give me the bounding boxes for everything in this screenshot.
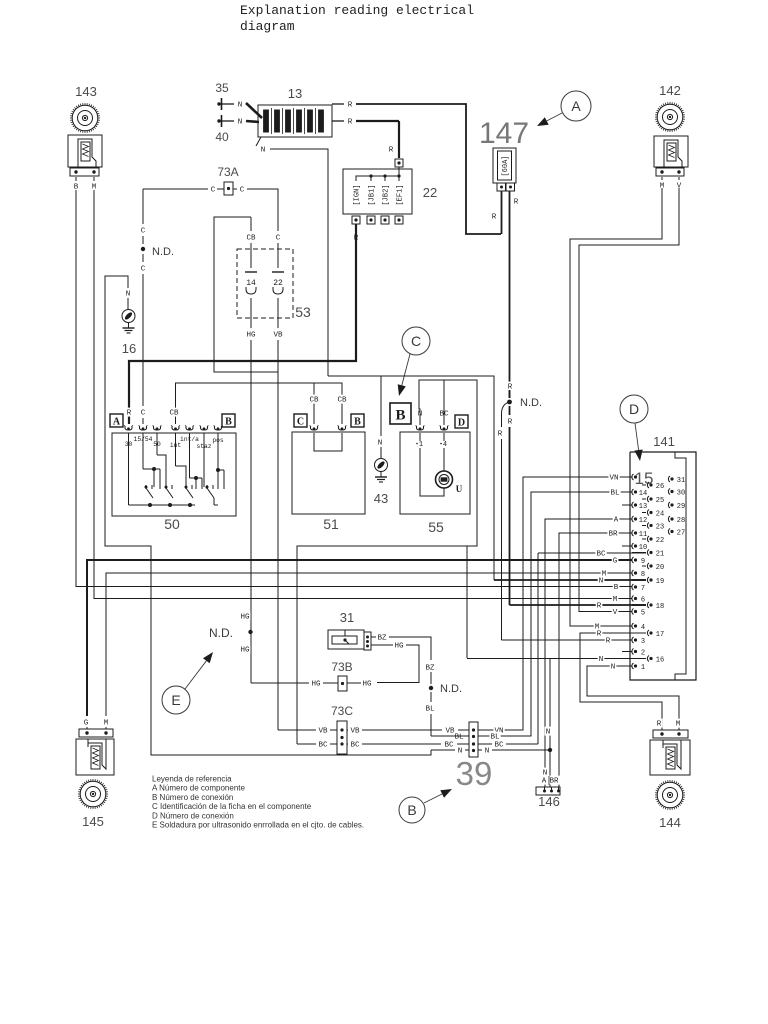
svg-text:[EF1]: [EF1]	[397, 184, 405, 205]
wire C label above pin 15/54	[140, 408, 147, 417]
141 wire label VN y477	[608, 473, 619, 482]
svg-text:N: N	[599, 578, 604, 586]
EF1 top pin	[395, 159, 403, 167]
svg-text:C: C	[276, 235, 281, 243]
svg-text:73C: 73C	[331, 704, 353, 718]
svg-text:10: 10	[639, 544, 647, 552]
wire R label top	[347, 100, 354, 109]
svg-text:CB: CB	[246, 235, 256, 243]
wire M from 145 to 141 pin 8	[106, 573, 632, 716]
junction on CB at 51 left pin	[313, 383, 315, 424]
svg-text:CB: CB	[337, 397, 347, 405]
141 pin 25	[647, 496, 649, 502]
stub pin10	[622, 545, 632, 547]
141 wire label G y560	[612, 556, 619, 565]
switch 50 pin 30	[125, 427, 132, 430]
svg-text:U: U	[456, 484, 463, 494]
wire BR 141 pin 11 to connector 146	[559, 533, 632, 787]
141 pin 5	[632, 609, 634, 615]
svg-text:C: C	[411, 333, 421, 349]
svg-text:31: 31	[340, 610, 354, 625]
terminal 40 connector symbol	[217, 119, 220, 122]
wire N label above junction	[545, 727, 552, 736]
svg-text:M: M	[613, 596, 618, 604]
wire N label below 13	[260, 145, 267, 154]
connector 22 body	[343, 169, 412, 214]
svg-text:N.D.: N.D.	[152, 246, 174, 258]
55 pin N	[416, 427, 423, 430]
svg-text:BC: BC	[494, 742, 504, 750]
svg-text:C Identificación de la ficha e: C Identificación de la ficha en el compo…	[152, 802, 312, 811]
141 pin 26	[647, 482, 649, 488]
svg-text:R: R	[508, 419, 513, 427]
balloon B arrow	[424, 794, 442, 803]
svg-text:V: V	[613, 609, 618, 617]
wire R label above pin 30	[126, 408, 133, 417]
svg-text:BL: BL	[454, 734, 464, 742]
svg-text:[JB1]: [JB1]	[369, 184, 377, 205]
svg-text:N: N	[261, 147, 266, 155]
wire BC from x297 into 73C and to 39	[297, 743, 316, 745]
svg-text:13: 13	[639, 503, 647, 511]
connector 73C body	[337, 721, 347, 754]
wire A 141 pin 12 to connector 146	[545, 519, 632, 787]
svg-text:146: 146	[538, 794, 560, 809]
relay 31 body	[328, 630, 364, 649]
svg-text:HG: HG	[311, 681, 321, 689]
wire N junction x550 down to 146	[549, 659, 551, 788]
141 wire label N y666	[610, 662, 617, 671]
connector 13 bar 1	[264, 110, 269, 132]
wire R label second	[347, 117, 354, 126]
svg-text:A: A	[571, 98, 581, 114]
wire M from 142 to pin 4	[570, 188, 662, 626]
svg-text:M: M	[676, 721, 681, 729]
switch 50 internal contacts	[128, 433, 130, 505]
svg-text:D: D	[458, 418, 465, 429]
svg-text:29: 29	[677, 503, 685, 511]
svg-text:BR: BR	[549, 778, 559, 786]
141 pin 14	[632, 489, 634, 495]
55 pin BC	[440, 427, 447, 430]
wire CB label above 53 pin14	[245, 233, 256, 242]
wire BC 55 pin up to y380	[443, 380, 445, 425]
svg-text:147: 147	[479, 117, 529, 150]
connector 39 strip	[469, 722, 478, 757]
svg-text:4: 4	[641, 624, 645, 632]
svg-text:35: 35	[215, 81, 229, 95]
connector strip of 145	[79, 729, 113, 737]
fuse 147 body	[493, 148, 516, 183]
connector 13 bar 3	[286, 110, 291, 132]
splice N.D. (R wires)	[507, 382, 514, 391]
wire N branch x467 down to pin16 run	[466, 546, 468, 658]
141 pin 16	[647, 656, 649, 662]
balloon C	[402, 327, 430, 355]
141 pin 3	[632, 637, 634, 643]
svg-text:8: 8	[641, 571, 645, 579]
switch 50 outer box	[112, 433, 236, 516]
svg-text:VN: VN	[609, 475, 618, 483]
connector 22 bottom pins	[352, 216, 360, 224]
wire R label below IGN	[353, 233, 360, 242]
svg-text:A: A	[113, 417, 121, 428]
speaker 142 tweeter symbol	[657, 104, 683, 130]
balloon A arrow	[547, 113, 562, 121]
141 wire label R y633	[596, 629, 603, 638]
39 wire stubs	[458, 729, 469, 731]
horn symbol U in 55	[436, 471, 453, 488]
141 wire label M y598.5	[612, 594, 619, 603]
connector 73A body	[224, 182, 233, 195]
wire C label left of 73A	[210, 185, 217, 194]
svg-text:B: B	[225, 417, 232, 428]
svg-text:G: G	[613, 558, 618, 566]
141 wire label M y626	[594, 622, 601, 631]
141 pin 12	[632, 516, 634, 522]
svg-text:HG: HG	[246, 332, 256, 340]
wire from 13 second R to EF1: right then down	[356, 120, 399, 122]
svg-text:N: N	[611, 664, 616, 672]
svg-text:B: B	[407, 802, 416, 818]
svg-text:145: 145	[82, 814, 104, 829]
svg-text:D Número de conexión: D Número de conexión	[152, 811, 234, 820]
svg-text:23: 23	[656, 523, 664, 531]
ground 43 symbol	[375, 459, 388, 472]
svg-text:R: R	[492, 214, 497, 222]
svg-text:M: M	[104, 720, 109, 728]
svg-text:25: 25	[656, 497, 664, 505]
wire N label on 146 wire	[542, 768, 549, 777]
boxed label B (switch 50)	[222, 414, 235, 427]
svg-text:[60A]: [60A]	[502, 155, 510, 176]
svg-text:VB: VB	[350, 728, 360, 736]
connector 13 bar 6	[319, 110, 324, 132]
svg-text:HG: HG	[240, 614, 250, 622]
svg-text:B: B	[395, 408, 405, 424]
144 pin labels R / M	[656, 719, 663, 728]
svg-text:12: 12	[639, 517, 647, 525]
39 wire labels right	[493, 726, 504, 735]
svg-text:BL: BL	[610, 490, 620, 498]
wire HG loop to 73B	[377, 645, 419, 683]
73C wire VB left label	[317, 726, 328, 735]
wire fuse left pin down to R feed	[501, 191, 503, 234]
connector 13 bar 2	[275, 110, 280, 132]
141 pin 24	[647, 510, 649, 516]
svg-text:24: 24	[656, 510, 664, 518]
svg-text:B: B	[614, 584, 619, 592]
wire R label above EF1	[388, 145, 395, 154]
wire from 73A right to x=278 down	[233, 188, 237, 190]
svg-text:D: D	[629, 401, 639, 417]
73C wire VB right label	[349, 726, 360, 735]
svg-text:11: 11	[639, 531, 647, 539]
51 inner plug outline	[314, 433, 342, 451]
svg-text:E Soldadura por ultrasonido en: E Soldadura por ultrasonido enrrollada e…	[152, 821, 364, 830]
svg-text:C: C	[141, 266, 146, 274]
svg-text:55: 55	[428, 519, 444, 535]
pin label V of 142	[678, 177, 680, 180]
141 pin 30	[668, 489, 670, 495]
73C wire BC right label	[349, 740, 360, 749]
svg-text:R: R	[514, 199, 519, 207]
svg-text:E: E	[171, 692, 180, 708]
terminal 35 connector symbol	[217, 102, 220, 105]
wire CB from 73A area: corner into 53 pin 14	[214, 217, 278, 372]
141 pin 8	[632, 570, 634, 576]
svg-text:39: 39	[456, 755, 493, 792]
wire HG from 31	[371, 644, 393, 646]
svg-text:18: 18	[656, 603, 664, 611]
141 wire label V y611.5	[612, 607, 619, 616]
speaker 143 coil box	[68, 135, 102, 167]
boxed label B (51)	[351, 414, 364, 427]
svg-text:142: 142	[659, 83, 681, 98]
relay 31 pin block	[364, 632, 371, 650]
ground 43 N label	[377, 438, 384, 447]
141 pin 31	[668, 476, 670, 482]
switch arms	[146, 488, 153, 498]
wire from 13 top R to fuse area: right, down, right	[356, 104, 501, 234]
wire R label below splice	[507, 417, 514, 426]
connector 146 strip	[536, 787, 560, 795]
svg-text:VB: VB	[318, 728, 328, 736]
svg-text:N: N	[458, 748, 463, 756]
speaker 145 coil box	[76, 739, 114, 775]
svg-text:C: C	[141, 228, 146, 236]
svg-text:13: 13	[288, 86, 302, 101]
wire VB from 53 into 73C and on to 39	[278, 729, 316, 731]
svg-text:N: N	[546, 729, 551, 737]
wire N label (40)	[237, 117, 244, 126]
wire bracket from ground 16 area: up, right, down to N	[105, 276, 431, 755]
141 wire label BL y492	[609, 488, 620, 497]
141 pin 7	[632, 584, 634, 590]
splice N.D. on HG wire	[239, 612, 250, 621]
146 pin labels A / BR	[541, 776, 548, 785]
141 wire label M y573	[601, 569, 608, 578]
svg-text:21: 21	[656, 550, 664, 558]
wire R thick to 141 pin 18	[510, 604, 647, 606]
connector strip of 143	[70, 168, 99, 176]
141 pin 27	[668, 529, 670, 535]
wire G thick from 145 to 141 pin 9	[87, 560, 632, 716]
wire HG into 73B left	[251, 682, 309, 684]
wire BZ from 31	[371, 636, 376, 638]
box 51	[292, 432, 365, 514]
svg-text:R: R	[127, 410, 132, 418]
boxed label A	[110, 414, 123, 427]
svg-text:22: 22	[273, 279, 283, 288]
svg-text:R: R	[389, 147, 394, 155]
wire C label on x143	[140, 226, 147, 235]
switch 50 pin int/a	[186, 427, 193, 430]
wire CB from pin int: up and right to 51	[176, 383, 343, 424]
ground 16 N label	[125, 289, 132, 298]
svg-text:R: R	[597, 631, 602, 639]
switch 50 pin pos	[214, 427, 221, 430]
svg-text:16: 16	[122, 341, 136, 356]
pin label M of 143	[93, 177, 95, 181]
svg-text:73A: 73A	[217, 165, 238, 179]
splice N.D. BZ/BL	[429, 686, 433, 690]
speaker 143 tweeter symbol	[72, 105, 98, 131]
141 pin 20	[647, 563, 649, 569]
svg-text:N.D.: N.D.	[209, 626, 233, 640]
svg-text:N: N	[126, 291, 131, 299]
connector 13 bar 4	[297, 110, 302, 132]
141 pin 6	[632, 596, 634, 602]
svg-text:[JB2]: [JB2]	[383, 184, 391, 205]
svg-text:R: R	[657, 721, 662, 729]
wire into 73A from left (C net)	[143, 188, 208, 190]
svg-text:BC: BC	[350, 742, 360, 750]
wire fuse right pin down (R)	[509, 191, 511, 398]
141 wire label R y640	[605, 636, 612, 645]
wire R second output of 13	[332, 120, 344, 122]
51 pin CB left	[310, 427, 317, 430]
ground 16 symbol	[122, 310, 135, 323]
svg-text:BC: BC	[596, 551, 606, 559]
141 pin 15	[632, 474, 634, 480]
141 pin 9	[632, 557, 634, 563]
wire N from 13 to vertical x=328	[270, 149, 328, 376]
wire BC to 141 pin 21	[537, 553, 539, 744]
connector 22 internal bus	[356, 176, 399, 181]
141 wire label B y586.5	[613, 582, 620, 591]
svg-text:N: N	[378, 440, 383, 448]
svg-text:2: 2	[641, 649, 645, 657]
svg-text:20: 20	[656, 564, 664, 572]
svg-text:30: 30	[677, 489, 685, 497]
thick R wire down to pin 18 run	[509, 427, 511, 605]
svg-text:C: C	[141, 410, 146, 418]
svg-text:141: 141	[653, 434, 675, 449]
wire C label right of 73A	[239, 185, 246, 194]
thick R wire IGN down, left, down to switch 50 pin 30	[129, 224, 356, 424]
wire N thick to 141 pin 19	[494, 579, 646, 581]
wire HG label right 73B	[361, 679, 372, 688]
svg-text:R: R	[498, 431, 503, 439]
141 wire label R y605	[596, 601, 603, 610]
svg-text:N: N	[485, 748, 490, 756]
73C wire BC left label	[317, 740, 328, 749]
svg-text:9: 9	[641, 558, 645, 566]
141 pin 13	[632, 502, 634, 508]
speaker 145 tweeter symbol	[80, 781, 106, 807]
speaker 142 coil box	[654, 136, 688, 167]
boxed label D (55)	[455, 415, 468, 428]
svg-text:BL: BL	[425, 706, 435, 714]
pin label B of 143	[75, 177, 77, 181]
wire R 141 pin 17 to speaker 144 R	[580, 633, 662, 728]
svg-text:HG: HG	[240, 647, 250, 655]
141 pin 10	[632, 543, 634, 549]
thick feed wire 40 into 13	[246, 121, 259, 122]
svg-text:HG: HG	[394, 643, 404, 651]
stub pin2	[622, 651, 632, 653]
wire VB below 53	[277, 298, 279, 328]
svg-text:BC: BC	[318, 742, 328, 750]
141 wire label N y580	[598, 576, 605, 585]
svg-text:143: 143	[75, 84, 97, 99]
dashed box 53	[237, 249, 293, 318]
svg-text:14: 14	[639, 490, 647, 498]
141 pin 18	[647, 602, 649, 608]
svg-text:3: 3	[641, 638, 645, 646]
svg-text:R: R	[597, 603, 602, 611]
svg-text:R: R	[348, 119, 353, 127]
svg-text:1: 1	[419, 441, 423, 449]
balloon E	[162, 686, 190, 714]
boxed label B big (55)	[390, 403, 411, 424]
svg-text:diagram: diagram	[240, 19, 295, 34]
141 pin 1	[632, 663, 634, 669]
svg-text:C: C	[297, 417, 304, 428]
wire R top output of 13	[332, 103, 344, 105]
wire N 141 pin 1 to speaker 144 M	[587, 666, 679, 728]
svg-text:26: 26	[656, 483, 664, 491]
svg-text:CB: CB	[309, 397, 319, 405]
svg-text:R: R	[348, 102, 353, 110]
wire V from 142 to pin 5	[579, 188, 679, 612]
wire C vertical to switch (x=143)	[142, 189, 144, 224]
svg-text:N: N	[238, 102, 243, 110]
55 internal wiring to horn symbol	[419, 433, 421, 441]
141 wire label A y519	[613, 515, 620, 524]
svg-text:31: 31	[677, 477, 685, 485]
svg-text:N: N	[599, 656, 604, 664]
53 pin 14	[245, 271, 257, 273]
141 pin 22	[647, 536, 649, 542]
wire C label 2 on x143	[140, 264, 147, 273]
switch 50 pin int	[172, 427, 179, 430]
ground 16 wire	[127, 298, 129, 309]
box 55	[400, 432, 470, 514]
141 pin 21	[647, 550, 649, 556]
connector strip of 142	[656, 168, 684, 176]
svg-text:73B: 73B	[331, 660, 352, 674]
141 pin 11	[632, 530, 634, 536]
wire N 55 pin up/over	[297, 380, 477, 744]
svg-text:22: 22	[423, 185, 437, 200]
wire N label (35)	[237, 100, 244, 109]
svg-text:27: 27	[677, 529, 685, 537]
svg-text:Explanation reading electrical: Explanation reading electrical	[240, 3, 474, 18]
svg-text:5: 5	[641, 609, 645, 617]
wire B from 143 to 141 pin 7	[76, 190, 632, 587]
wire BZ label on vertical	[424, 663, 435, 672]
wire HG label left 73B	[310, 679, 321, 688]
svg-text:43: 43	[374, 491, 388, 506]
svg-text:Leyenda de referencia: Leyenda de referencia	[152, 775, 232, 784]
wire CB label above pin int	[168, 408, 179, 417]
thin R branch down to pin 3 run	[501, 414, 503, 427]
splice N.D. on C wire	[141, 247, 145, 251]
svg-text:VB: VB	[273, 332, 283, 340]
wire N to 141 pin 16	[467, 658, 646, 660]
svg-text:51: 51	[323, 516, 339, 532]
svg-text:N.D.: N.D.	[520, 397, 542, 409]
connector 13 bar 5	[308, 110, 313, 132]
141 pin 29	[668, 502, 670, 508]
svg-text:[IGN]: [IGN]	[354, 184, 362, 205]
balloon B	[399, 797, 425, 823]
51 pin CB right	[338, 427, 345, 430]
wire HG below 53	[250, 298, 252, 328]
balloon D	[620, 395, 648, 423]
